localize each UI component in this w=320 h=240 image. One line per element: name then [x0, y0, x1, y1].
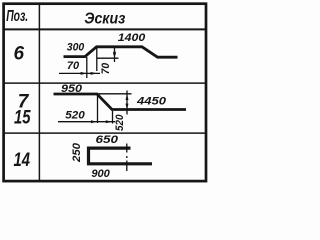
- rebar item 14 C-shaped bar: [89, 148, 153, 164]
- dimension line 70 vertical: [114, 48, 116, 62]
- svg-text:650: 650: [96, 134, 120, 146]
- extension line top level: [98, 93, 132, 95]
- rebar item 7/15 bent bar: [54, 94, 187, 110]
- arrowhead vert520 bottom: [126, 104, 129, 110]
- svg-text:900: 900: [91, 168, 110, 180]
- svg-text:4450: 4450: [136, 96, 167, 108]
- arrowhead vert520 top: [126, 94, 129, 100]
- svg-text:15: 15: [14, 108, 31, 129]
- svg-text:70: 70: [100, 62, 112, 74]
- svg-text:520: 520: [114, 114, 126, 131]
- arrowhead dim520 left: [91, 120, 97, 123]
- arrowhead dim70 left: [81, 72, 87, 75]
- dimension line 520 horizontal: [58, 121, 115, 123]
- column separator line: [38, 3, 40, 181]
- svg-text:1400: 1400: [118, 32, 146, 44]
- svg-text:6: 6: [14, 43, 25, 64]
- svg-text:Поз.: Поз.: [6, 8, 28, 25]
- row separator 6/7: [3, 82, 206, 84]
- arrowhead vert70 bottom: [113, 52, 116, 58]
- table outer border: [4, 4, 206, 181]
- svg-text:70: 70: [67, 60, 80, 72]
- arrowhead vert70 top: [113, 48, 116, 54]
- header separator line: [3, 28, 206, 30]
- extension line from upper left bend: [96, 48, 98, 71]
- svg-text:950: 950: [61, 83, 83, 95]
- rebar item 6 bent bar: [64, 47, 178, 57]
- extension line from diagonal bottom: [112, 111, 114, 124]
- centerline dash-dot upper segment: [126, 144, 128, 153]
- row separator 15/14: [3, 132, 206, 134]
- dimension line 70 horizontal: [59, 72, 100, 74]
- svg-text:250: 250: [71, 142, 83, 163]
- centerline dash-dot lower segment: [126, 161, 128, 172]
- svg-text:Эскиз: Эскиз: [84, 11, 125, 28]
- arrowhead dim70 right: [91, 72, 97, 75]
- dimension line 520 vertical: [126, 91, 128, 115]
- arrowhead dim520 right: [106, 120, 112, 123]
- extension line lower level: [97, 57, 119, 59]
- svg-text:520: 520: [65, 110, 85, 122]
- svg-text:300: 300: [67, 42, 85, 54]
- svg-text:14: 14: [14, 150, 31, 171]
- extension line from left bend: [86, 57, 88, 78]
- centerline dash-dot dot: [126, 156, 128, 158]
- extension line from top bend: [97, 95, 99, 123]
